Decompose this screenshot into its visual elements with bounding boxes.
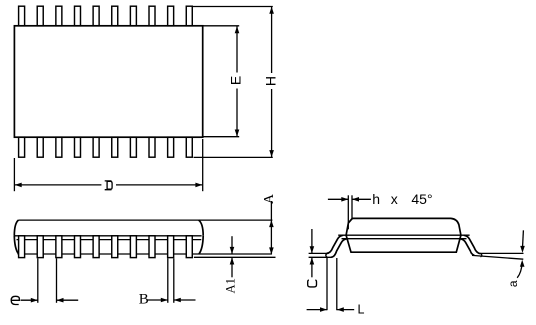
svg-text:a: a xyxy=(506,280,520,287)
svg-text:H: H xyxy=(262,76,278,86)
svg-text:45°: 45° xyxy=(411,191,432,207)
svg-text:x: x xyxy=(391,191,398,207)
svg-text:h: h xyxy=(372,191,380,207)
svg-text:B: B xyxy=(139,291,149,307)
svg-text:A1: A1 xyxy=(223,278,237,293)
svg-text:L: L xyxy=(358,303,365,317)
svg-text:E: E xyxy=(228,76,244,85)
svg-text:A: A xyxy=(262,193,277,204)
